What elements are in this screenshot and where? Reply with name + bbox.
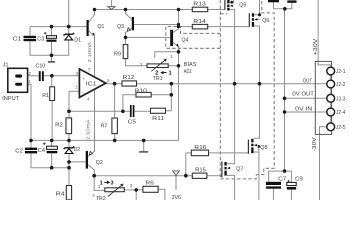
svg-text:R11: R11: [152, 116, 164, 122]
label R7: [101, 123, 108, 129]
svg-text:C1: C1: [13, 37, 22, 43]
wire Q5 source down to OUT: [230, 10, 235, 84]
trimmer TR2: [105, 184, 125, 197]
node TR2 wiper out: [134, 188, 138, 192]
node 0V OUT: [283, 97, 287, 101]
svg-text:R4: R4: [56, 192, 65, 198]
wire top caps junction: [274, 2, 292, 9]
label 2V6: [172, 195, 181, 201]
wire D1 bottom lead to ground node: [52, 40, 69, 55]
node Q8 source arrow: [258, 145, 261, 148]
label J2-4: [336, 110, 346, 116]
wire Q3 emitter lead: [126, 10, 132, 20]
node bus R2/D2: [67, 139, 71, 143]
svg-text:-30V: -30V: [312, 137, 318, 152]
wire C5 left lead: [123, 110, 130, 112]
wire Q3 collector to R9: [125, 37, 127, 44]
wire inverting input run: [69, 91, 79, 111]
wire C4 top lead: [51, 140, 53, 146]
svg-text:J2-2: J2-2: [336, 82, 346, 88]
svg-text:2.10mA: 2.10mA: [85, 119, 91, 140]
wire R14 left lead: [179, 26, 193, 28]
label TR1: [153, 76, 163, 82]
wire R11 right lead: [166, 95, 172, 111]
label TR1 pin1: [170, 54, 173, 60]
svg-text:J1: J1: [3, 63, 9, 69]
svg-text:3: 3: [130, 183, 133, 189]
wire R7 top lead: [114, 84, 116, 118]
wire C10 to IC1 pin3: [44, 75, 80, 77]
capacitor C9: [287, 180, 296, 190]
wire TR2 pin1 lead: [94, 176, 105, 191]
svg-text:J2-3: J2-3: [336, 96, 346, 102]
node feedback tap on OUT: [170, 82, 174, 86]
label OUT: [303, 79, 313, 85]
heatsink dashed branch around Q4: [166, 27, 221, 49]
label pin6: [107, 78, 110, 84]
node OUT left pair: [233, 82, 237, 86]
label +30V: [313, 38, 319, 56]
label C3: [37, 37, 44, 43]
node Q3 base: [177, 23, 180, 26]
wire C5 right to R11: [134, 110, 150, 112]
wire C1 bottom lead to ground node: [30, 41, 52, 55]
node bus R1/C4: [50, 139, 54, 143]
wire R14 right to Q6 gate: [208, 26, 250, 28]
svg-text:Q1: Q1: [98, 24, 105, 30]
wire Q6 drain feed from top edge: [254, 0, 259, 15]
wire TR1 node down to ground bus: [178, 52, 180, 141]
svg-text:6: 6: [107, 78, 110, 84]
label xTR2: [92, 194, 106, 202]
wire +15V node top-left horizontal: [30, 26, 87, 28]
capacitor C8 (top, cropped): [287, 0, 296, 2]
label J2-2: [336, 82, 346, 88]
label C5: [128, 119, 136, 125]
svg-text:R9: R9: [114, 52, 121, 58]
resistor R6: [143, 186, 158, 192]
svg-text:R13: R13: [193, 2, 206, 8]
node feedback A C5/R10: [121, 110, 125, 114]
wire Q3 collector to Q4 base: [126, 36, 171, 38]
resistor R2: [66, 118, 72, 134]
label 2.10mA upper: [87, 41, 93, 62]
mosfet Q6: [249, 13, 259, 26]
svg-text:R14: R14: [193, 19, 206, 25]
svg-text:R6: R6: [146, 180, 154, 186]
node Q3 collector / Q4 base / R9: [124, 36, 128, 40]
WIRES_START: [28, 0, 331, 200]
svg-text:ADJ.: ADJ.: [184, 69, 193, 75]
label C9: [295, 176, 303, 182]
wire 0V vertical from caps to C7/C9: [284, 9, 286, 171]
label 7 pin: [88, 67, 91, 73]
svg-text:+: +: [82, 77, 85, 82]
label J2-1: [336, 69, 346, 75]
label TR2 direction 1-3: [100, 181, 114, 187]
wire R13/R14 branch vertical: [178, 10, 180, 27]
svg-text:3: 3: [111, 181, 114, 187]
svg-text:J2-5: J2-5: [336, 125, 346, 131]
label J1: [3, 63, 9, 69]
label TR1 pin3: [140, 62, 143, 68]
op-amp IC1: [79, 69, 105, 98]
node ground C1/C3/D1: [50, 54, 54, 58]
ground symbol top: [108, 7, 115, 10]
label D1: [74, 38, 81, 44]
node Q6 drain: [258, 13, 261, 16]
label C2: [15, 149, 23, 155]
wire C4 bottom lead: [51, 153, 53, 167]
wire 0V OUT line: [285, 97, 327, 99]
label INPUT: [2, 96, 20, 102]
node TR1 wiper: [177, 50, 181, 54]
wire J1 pin2 to C10: [28, 75, 39, 77]
wire R2 bottom lead: [68, 134, 70, 141]
node bus J1 shield: [29, 139, 33, 143]
connector J2: [315, 61, 334, 134]
label R1: [42, 93, 49, 99]
wire C3 top lead: [51, 27, 53, 36]
resistor R1: [50, 87, 55, 101]
svg-text:R15: R15: [195, 168, 206, 174]
node D1 top: [67, 25, 71, 29]
wire D2 top lead: [68, 140, 70, 147]
ground symbol stem (top): [110, 0, 112, 7]
svg-text:Q4: Q4: [182, 38, 189, 44]
label TR1 wiper direction 2-1: [155, 71, 171, 77]
wire R15 right to Q7 gate: [207, 175, 222, 177]
wire ground bus: [31, 139, 179, 141]
heatsink dashed stub at Q5: [220, 13, 227, 15]
svg-text:4: 4: [87, 97, 90, 103]
resistor R14: [192, 24, 207, 29]
wire C7 bottom lead: [272, 189, 274, 200]
node Q2 collector: [92, 174, 96, 178]
connector J1: [8, 68, 28, 92]
label 0V IN: [295, 107, 312, 113]
label minus input: [82, 90, 84, 95]
label J2-3: [336, 96, 346, 102]
wire C9 bottom lead: [290, 190, 292, 200]
node TR1 pin1: [177, 64, 181, 68]
transistor Q4: [170, 30, 178, 48]
capacitor C6 (top, cropped): [268, 0, 279, 2]
resistor R11: [151, 108, 166, 113]
svg-text:2: 2: [155, 71, 158, 77]
wire Q4 emitter lead down: [173, 43, 178, 52]
label Q1: [98, 24, 105, 30]
label C4: [38, 148, 45, 154]
node bus R7: [113, 139, 117, 143]
label R14: [193, 19, 206, 25]
svg-text:OUT: OUT: [303, 79, 313, 85]
node R10/R11 join: [170, 93, 174, 97]
label pin2 J1: [28, 71, 31, 77]
label R13: [193, 2, 206, 8]
wire C2 top lead: [30, 140, 32, 147]
capacitor C3: [44, 32, 57, 42]
resistor R15: [192, 173, 207, 178]
zener D2: [64, 147, 75, 154]
wire Q7 source down to bottom edge: [227, 175, 235, 200]
resistor R7: [112, 118, 118, 134]
svg-text:Q5: Q5: [239, 3, 246, 9]
svg-text:Q2: Q2: [96, 160, 103, 166]
wire TR1 pin1 link: [168, 65, 178, 67]
node OUT right pair: [258, 82, 262, 86]
label 2.10mA lower: [85, 119, 91, 140]
label R12: [123, 75, 135, 81]
svg-text:Q8: Q8: [260, 145, 267, 151]
wire TR2 node down to bottom edge: [135, 190, 137, 200]
node R13 branch on rail: [177, 8, 181, 12]
svg-text:C10: C10: [36, 64, 46, 70]
wire C3 bottom lead: [51, 42, 53, 55]
wire IC1 pin4 down to Q2 emitter: [88, 89, 95, 156]
label 0V OUT: [292, 91, 314, 97]
label Q2: [96, 160, 103, 166]
wire R9 bottom to TR1 pin3: [126, 59, 148, 66]
test point stem 2V6: [175, 176, 177, 191]
wire R13 right to Q5 gate: [208, 9, 225, 11]
svg-text:1: 1: [169, 71, 172, 77]
trimmer TR1: [147, 59, 168, 72]
node C7/C9: [283, 169, 287, 173]
wire negative node bottom-left: [31, 167, 69, 169]
wire R1 bottom lead: [51, 101, 53, 141]
label R6: [146, 180, 154, 186]
svg-text:TR2: TR2: [96, 196, 106, 200]
svg-text:1: 1: [170, 54, 173, 60]
wire D1 feed from top edge: [68, 0, 70, 33]
resistor R9: [123, 45, 128, 59]
wire C7 top lead: [269, 171, 285, 182]
label R10: [135, 88, 147, 94]
wire D2 bottom lead: [68, 154, 70, 167]
svg-text:D2: D2: [74, 147, 80, 153]
svg-text:3: 3: [140, 62, 143, 68]
wire R16 left lead: [186, 152, 192, 154]
COMP_START: [166, 0, 274, 179]
svg-text:R10: R10: [135, 88, 147, 94]
label R15: [195, 168, 206, 174]
svg-text:R12: R12: [123, 75, 135, 81]
wire R1 top lead: [51, 76, 53, 87]
DOTS_START: [29, 1, 286, 192]
wire R7 bottom lead: [114, 134, 116, 141]
svg-text:2: 2: [28, 71, 31, 77]
label TR2 pin3: [130, 183, 133, 189]
capacitor C1: [24, 36, 37, 41]
wire R6 right down to bottom edge: [158, 189, 165, 200]
wire +30V rail (top): [95, 9, 225, 11]
wire R13 left lead: [179, 9, 193, 11]
svg-text:R1: R1: [42, 93, 49, 99]
wire R10 right lead: [151, 94, 171, 96]
heatsink dashed line main vertical: [219, 0, 221, 179]
label pin2: [75, 85, 78, 91]
svg-text:Q6: Q6: [262, 18, 269, 24]
node C3 top: [50, 25, 54, 29]
svg-text:C7: C7: [278, 176, 286, 182]
label C1: [13, 37, 22, 43]
capacitor C2: [25, 148, 37, 154]
wire Q7 drain up to OUT: [227, 84, 235, 164]
resistor R10: [136, 92, 151, 97]
wire +30V down to J2-1: [318, 0, 331, 67]
wire Q8 source down to bottom edge: [254, 147, 259, 201]
heatsink dashed bottom staircase: [220, 0, 274, 179]
node Q2 base: [67, 160, 71, 164]
wire Q8 drain up to OUT: [254, 84, 260, 139]
node R14/Q4 collector: [177, 25, 180, 28]
capacitor C5: [130, 105, 135, 117]
label Q6: [262, 18, 269, 24]
label pin4: [87, 97, 90, 103]
node top caps junction: [283, 7, 287, 11]
wire TR2 right to R6: [124, 189, 143, 191]
node 0V IN: [283, 110, 287, 114]
wire C9 top lead: [285, 171, 292, 182]
node D2 bottom / R4: [67, 166, 71, 170]
svg-text:C3: C3: [37, 37, 44, 43]
wire OUT line: [106, 83, 327, 85]
node Q1 collector on rail: [93, 8, 97, 12]
svg-text:Q3: Q3: [117, 24, 124, 30]
wire C2 bottom lead: [30, 154, 32, 168]
label Q7: [236, 166, 243, 172]
label R4: [56, 192, 65, 198]
svg-text:C5: C5: [128, 119, 136, 125]
wire Q2 collector lead: [88, 165, 94, 176]
label R16: [194, 145, 206, 151]
svg-text:J2-4: J2-4: [336, 110, 346, 116]
wire feedback tap vertical: [170, 84, 172, 95]
label Q5: [239, 3, 246, 9]
label Q3: [117, 24, 124, 30]
node Q3 emitter on rail: [124, 8, 128, 12]
node R2 top / inverting input: [67, 110, 71, 114]
node IC1 out / R7: [113, 82, 117, 86]
wire R10 left lead: [123, 95, 136, 112]
wire R16 branch vertical: [185, 153, 187, 176]
label pin1 J1: [28, 79, 31, 85]
svg-text:1: 1: [28, 79, 31, 85]
wire Q1 emitter to IC1 pin7: [89, 31, 95, 77]
wire Q3 collector lead down: [126, 28, 132, 37]
svg-text:Q7: Q7: [236, 166, 243, 172]
svg-text:R7: R7: [101, 123, 108, 129]
label R11: [152, 116, 164, 122]
svg-text:IC1: IC1: [86, 82, 97, 88]
transistor Q3: [127, 17, 134, 31]
wire Q6 source down to OUT: [254, 26, 259, 84]
node C10/R1/IC1+: [50, 74, 54, 78]
ground stub at C3/D1 node: [48, 55, 55, 62]
label R9: [114, 52, 121, 58]
transistor Q1: [87, 20, 95, 36]
label TR2 pin1: [98, 184, 101, 190]
svg-text:INPUT: INPUT: [2, 96, 20, 102]
node bus ground stub: [142, 139, 146, 143]
mosfet Q7: [222, 161, 230, 177]
wire J2 pin chain: [330, 71, 332, 127]
resistor R13: [192, 7, 207, 12]
wire Q2 collector node run to R15: [94, 175, 192, 177]
wire Q4 collector lead: [173, 27, 178, 33]
label plus input: [82, 77, 85, 82]
zener D1: [64, 33, 75, 40]
label Q8: [260, 145, 267, 151]
label J2-5: [336, 125, 346, 131]
wire Q3 base to node: [134, 24, 179, 26]
wire Q1 collector lead: [89, 10, 95, 23]
resistor R4: [66, 186, 71, 200]
svg-text:1: 1: [98, 184, 101, 190]
svg-text:R16: R16: [194, 145, 206, 151]
wire R2 top lead: [68, 111, 70, 118]
node R16 branch: [184, 174, 188, 178]
wire R4 top lead: [68, 168, 70, 186]
svg-text:TR1: TR1: [153, 76, 163, 82]
wire J1 pin1 down left column: [28, 84, 31, 140]
capacitor C7: [266, 182, 281, 189]
wire J2-5 to -30V: [320, 127, 327, 200]
capacitor C4: [43, 142, 57, 153]
mosfet Q8: [248, 139, 259, 154]
wire feedback node A: [69, 110, 123, 112]
wire Q2 base: [69, 161, 86, 163]
test point triangle 2V6: [173, 171, 180, 176]
resistor R16: [191, 150, 208, 156]
wire C1 top lead: [29, 27, 31, 36]
label C10: [36, 64, 46, 70]
svg-text:0V OUT: 0V OUT: [292, 91, 314, 97]
label C7: [278, 176, 286, 182]
transistor Q2: [86, 151, 93, 169]
svg-text:C4: C4: [38, 148, 45, 154]
svg-text:2.10mA: 2.10mA: [87, 41, 93, 62]
capacitor C10: [39, 71, 44, 81]
mosfet Q5: [225, 0, 233, 11]
svg-text:7: 7: [88, 67, 91, 73]
label IC1: [86, 82, 97, 88]
svg-text:BIAS: BIAS: [184, 62, 197, 68]
wire TR1 wiper link: [155, 52, 179, 59]
svg-text:0V IN: 0V IN: [295, 107, 312, 113]
ground stub on bus: [139, 140, 148, 152]
svg-text:+30V: +30V: [313, 38, 319, 56]
label R2: [55, 122, 63, 128]
label BIAS ADJ: [184, 62, 197, 75]
svg-text:3: 3: [75, 71, 78, 77]
resistor R12: [122, 81, 137, 86]
label Q4: [182, 38, 189, 44]
label -30V: [312, 137, 318, 152]
svg-text:2V6: 2V6: [172, 195, 181, 200]
label pin3: [75, 71, 78, 77]
node C2 bottom: [50, 166, 54, 170]
svg-text:J2-1: J2-1: [336, 69, 346, 75]
svg-text:C9: C9: [295, 176, 303, 182]
wire Q5 drain to top edge: [230, 0, 234, 2]
svg-text:2: 2: [75, 85, 78, 91]
wire R16 right to Q8 gate: [209, 152, 249, 154]
svg-text:R2: R2: [55, 122, 63, 128]
node Q5 drain: [230, 1, 233, 4]
label D2: [74, 147, 80, 153]
